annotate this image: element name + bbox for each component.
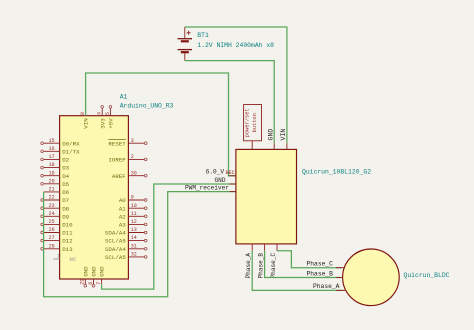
svg-text:D4: D4 bbox=[62, 173, 69, 180]
svg-text:IOREF: IOREF bbox=[108, 157, 126, 164]
motor M1 Quicrun_BLDC body (circle) bbox=[343, 249, 400, 306]
svg-text:A3: A3 bbox=[119, 222, 126, 229]
arduino pin 10 (A1) bbox=[119, 203, 147, 213]
svg-text:2: 2 bbox=[131, 154, 134, 160]
svg-text:SCL/A5: SCL/A5 bbox=[105, 254, 126, 261]
svg-text:GND: GND bbox=[215, 177, 226, 184]
wire Phase_C from ESC to motor bbox=[277, 251, 342, 268]
svg-text:9: 9 bbox=[131, 195, 134, 201]
svg-text:D9: D9 bbox=[62, 213, 69, 220]
ESC pin GND stub (top) bbox=[273, 143, 275, 149]
arduino pin 1 (NC, not connected, grey) bbox=[53, 253, 77, 263]
svg-text:21: 21 bbox=[49, 187, 55, 193]
arduino pin 21 (D6) bbox=[44, 187, 70, 197]
svg-text:Arduino_UNO_R3: Arduino_UNO_R3 bbox=[120, 103, 174, 110]
svg-text:1.2V NIMH 2400mAh x8: 1.2V NIMH 2400mAh x8 bbox=[197, 42, 274, 49]
svg-text:Phase_B: Phase_B bbox=[258, 253, 265, 279]
svg-text:D11: D11 bbox=[62, 230, 73, 237]
ESC pin GND stub (left) bbox=[230, 183, 236, 185]
svg-text:1: 1 bbox=[57, 253, 60, 259]
arduino pin 28 (D13) bbox=[41, 243, 73, 253]
wire arduino D6 around to ESC PWM (net PWM_receiver) bbox=[44, 192, 236, 297]
svg-text:A2: A2 bbox=[119, 213, 126, 220]
svg-text:3V3: 3V3 bbox=[99, 118, 106, 129]
svg-text:SCL/A5: SCL/A5 bbox=[105, 238, 126, 245]
arduino pin 32 (SCL/A5) bbox=[105, 252, 147, 262]
svg-text:18: 18 bbox=[49, 162, 55, 168]
svg-text:16: 16 bbox=[49, 146, 55, 152]
svg-text:D3: D3 bbox=[62, 165, 69, 172]
svg-text:12: 12 bbox=[131, 219, 137, 225]
arduino pin 20 (D5) bbox=[41, 178, 70, 188]
arduino pin 3 (RESET) bbox=[108, 138, 147, 148]
svg-text:22: 22 bbox=[49, 195, 55, 201]
svg-text:13: 13 bbox=[131, 227, 137, 233]
arduino pin 18 (D3) bbox=[41, 162, 70, 172]
arduino pin 16 (D1/TX) bbox=[41, 146, 80, 156]
svg-text:A1: A1 bbox=[119, 205, 126, 212]
svg-text:20: 20 bbox=[49, 178, 55, 184]
arduino pin 7 (GND) bottom GND bbox=[96, 266, 106, 285]
arduino pin 9 (A0) bbox=[119, 195, 147, 205]
arduino pin 14 (SCL/A5) bbox=[105, 235, 147, 245]
svg-text:23: 23 bbox=[49, 203, 55, 209]
svg-text:28: 28 bbox=[49, 243, 55, 249]
ESC pin BEC stub bbox=[229, 175, 236, 177]
wire battery minus to ESC GND (net GND) bbox=[185, 61, 274, 144]
svg-text:D12: D12 bbox=[62, 238, 73, 245]
wire arduino GND pin7 to ESC GND (net GND) bbox=[102, 184, 236, 289]
svg-text:Phase_C: Phase_C bbox=[307, 261, 334, 268]
svg-text:27: 27 bbox=[49, 235, 55, 241]
svg-text:4: 4 bbox=[97, 112, 103, 115]
arduino pin 4 (3V3) top bbox=[97, 106, 107, 129]
svg-text:D6: D6 bbox=[62, 189, 69, 196]
svg-text:GND: GND bbox=[268, 129, 275, 141]
svg-text:5: 5 bbox=[105, 112, 111, 115]
wire arduino VIN up and over to ESC BEC (net 6.0_V) bbox=[86, 73, 236, 176]
svg-text:6: 6 bbox=[88, 282, 94, 285]
svg-text:Phase_A: Phase_A bbox=[313, 283, 340, 290]
svg-text:GND: GND bbox=[82, 266, 89, 277]
ESC pin Phase_B stub (bottom) bbox=[264, 244, 266, 251]
wire Phase_A from ESC to motor bbox=[252, 251, 343, 291]
svg-text:D8: D8 bbox=[62, 205, 69, 212]
arduino pin 22 (D7) bbox=[41, 195, 70, 205]
svg-text:Phase_A: Phase_A bbox=[245, 253, 252, 279]
svg-text:PWM_receiver: PWM_receiver bbox=[185, 185, 229, 192]
arduino pin 17 (D2) bbox=[41, 154, 70, 164]
svg-text:15: 15 bbox=[49, 138, 55, 144]
arduino pin 25 (D10) bbox=[41, 219, 73, 229]
arduino pin 2 (IOREF) bbox=[108, 154, 147, 164]
arduino pin 12 (A3) bbox=[119, 219, 147, 229]
arduino pin 26 (D11) bbox=[41, 227, 73, 237]
svg-text:D7: D7 bbox=[62, 197, 69, 204]
svg-text:A0: A0 bbox=[119, 197, 126, 204]
arduino pin 11 (A2) bbox=[119, 211, 147, 221]
svg-text:D1/TX: D1/TX bbox=[62, 148, 80, 155]
svg-text:button: button bbox=[252, 113, 258, 132]
arduino U/A1 Arduino_UNO_R3 body bbox=[60, 116, 129, 279]
arduino pin 13 (SDA/A4) bbox=[105, 227, 147, 237]
arduino pin 8 (VIN) top bbox=[80, 108, 90, 128]
svg-text:3: 3 bbox=[131, 138, 134, 144]
svg-text:30: 30 bbox=[131, 170, 137, 176]
svg-text:Quicrun_BLDC: Quicrun_BLDC bbox=[404, 272, 450, 279]
svg-text:24: 24 bbox=[49, 211, 55, 217]
arduino pin 19 (D4) bbox=[41, 170, 70, 180]
svg-text:25: 25 bbox=[49, 219, 55, 225]
arduino pin 31 (SDA/A4) bbox=[105, 243, 147, 253]
svg-text:Quicrun_10BL120_G2: Quicrun_10BL120_G2 bbox=[302, 169, 371, 176]
motor pin Phase_B stub bbox=[336, 277, 343, 279]
svg-text:VIN: VIN bbox=[83, 118, 90, 129]
ESC body Quicrun_10BL120_G2 bbox=[236, 149, 297, 244]
arduino pin 15 (D0/RX) bbox=[41, 138, 80, 148]
svg-text:GND: GND bbox=[99, 266, 106, 277]
svg-text:RESET: RESET bbox=[108, 140, 126, 147]
svg-text:BEC: BEC bbox=[225, 170, 234, 176]
power/set button box bbox=[244, 105, 262, 141]
svg-text:Phase_B: Phase_B bbox=[307, 270, 334, 277]
arduino pin 27 (D12) bbox=[41, 235, 73, 245]
svg-text:32: 32 bbox=[131, 252, 137, 258]
svg-text:BT1: BT1 bbox=[197, 32, 209, 39]
ESC pin VIN stub (top) bbox=[286, 143, 288, 149]
wire Phase_B from ESC to motor bbox=[265, 251, 341, 278]
svg-text:31: 31 bbox=[131, 243, 137, 249]
svg-text:AREF: AREF bbox=[112, 173, 126, 180]
svg-text:SDA/A4: SDA/A4 bbox=[105, 230, 126, 237]
svg-text:GND: GND bbox=[91, 266, 98, 277]
svg-text:17: 17 bbox=[49, 154, 55, 160]
ESC pin Phase_C stub (bottom) bbox=[276, 244, 278, 251]
svg-text:6.0_V: 6.0_V bbox=[206, 169, 225, 176]
ESC pin PWM stub (left) bbox=[230, 191, 236, 193]
svg-text:19: 19 bbox=[49, 170, 55, 176]
svg-text:VIN: VIN bbox=[280, 129, 287, 141]
arduino pin 30 (AREF) bbox=[112, 170, 147, 180]
ESC pin power/set stub (top) bbox=[251, 141, 253, 150]
svg-text:Phase_C: Phase_C bbox=[270, 253, 277, 279]
motor pin Phase_A stub bbox=[336, 289, 346, 291]
svg-text:SDA/A4: SDA/A4 bbox=[105, 246, 126, 253]
svg-text:D2: D2 bbox=[62, 157, 69, 164]
svg-text:10: 10 bbox=[131, 203, 137, 209]
svg-text:14: 14 bbox=[131, 235, 137, 241]
svg-text:29: 29 bbox=[80, 279, 86, 285]
arduino pin 5 (+5V) top bbox=[105, 106, 115, 129]
wire battery plus to ESC VIN (net VIN) bbox=[185, 27, 287, 143]
ESC pin Phase_A stub (bottom) bbox=[251, 244, 253, 251]
arduino pin 24 (D9) bbox=[41, 211, 70, 221]
motor pin Phase_C stub bbox=[336, 267, 345, 269]
svg-text:D5: D5 bbox=[62, 181, 69, 188]
svg-text:D10: D10 bbox=[62, 222, 73, 229]
svg-text:A1: A1 bbox=[120, 94, 128, 101]
arduino pin 6 (GND) bottom GND bbox=[88, 266, 98, 287]
svg-text:11: 11 bbox=[131, 211, 137, 217]
svg-text:D0/RX: D0/RX bbox=[62, 140, 80, 147]
arduino pin 23 (D8) bbox=[41, 203, 70, 213]
svg-text:+5V: +5V bbox=[108, 118, 115, 129]
battery BT1 bbox=[178, 27, 192, 61]
arduino pin 29 (GND) bottom GND bbox=[80, 266, 90, 287]
svg-text:26: 26 bbox=[49, 227, 55, 233]
svg-text:NC: NC bbox=[69, 256, 76, 263]
svg-text:D13: D13 bbox=[62, 246, 73, 253]
svg-text:power/set: power/set bbox=[245, 108, 251, 137]
